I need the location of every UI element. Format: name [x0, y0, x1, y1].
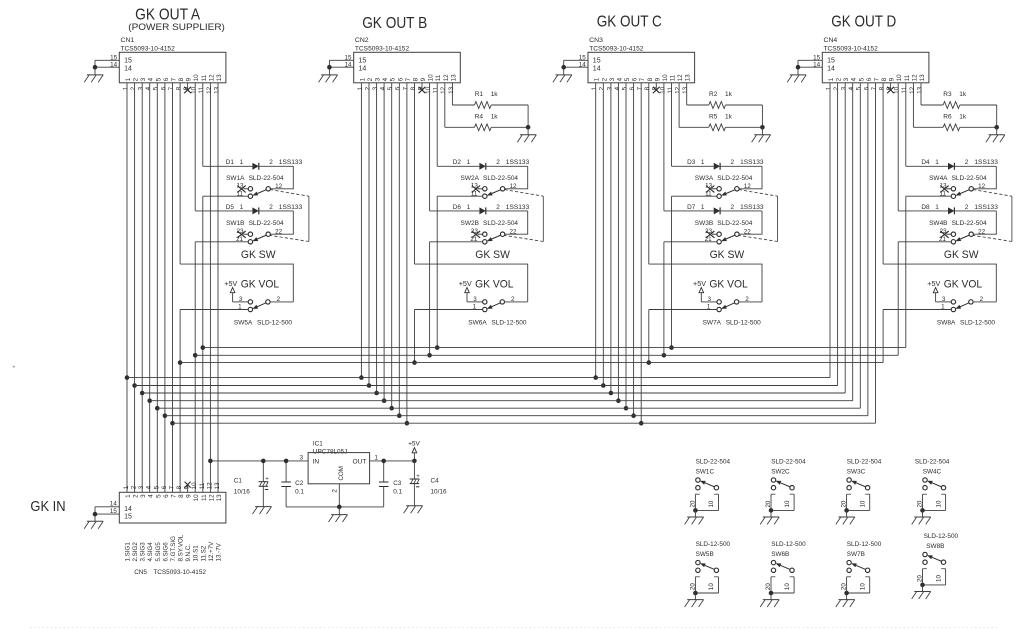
svg-text:SW1C: SW1C	[696, 469, 715, 476]
junction +5V/C4	[412, 459, 417, 464]
svg-text:8: 8	[413, 77, 420, 81]
wire CN3 pin 1	[595, 83, 597, 378]
svg-text:SLD-22-504: SLD-22-504	[483, 175, 518, 182]
junction pin 5 bus	[389, 406, 394, 411]
wire CN4 pin 13 to R3	[920, 83, 922, 105]
bus SIG1	[127, 377, 830, 379]
svg-text:1k: 1k	[959, 114, 967, 121]
wire CN2 ground	[328, 60, 330, 75]
junction CN4 pin14/15	[796, 65, 801, 70]
svg-text:3: 3	[609, 77, 616, 81]
svg-text:SW4C: SW4C	[923, 469, 942, 476]
junction R2/R5	[760, 125, 765, 130]
svg-text:2: 2	[731, 159, 735, 166]
svg-text:10: 10	[935, 500, 942, 507]
switch SW1B SLD-22-504	[226, 220, 284, 244]
wire CN2 pin 7	[406, 83, 408, 423]
svg-text:GK OUT C: GK OUT C	[597, 14, 662, 31]
svg-text:D8: D8	[921, 204, 930, 211]
connector CN2 TCS5093-10-4152	[354, 37, 461, 83]
svg-text:13: 13	[682, 86, 689, 94]
switch SW3B SLD-22-504	[695, 220, 753, 244]
svg-text:2: 2	[836, 77, 843, 81]
svg-text:9: 9	[654, 77, 661, 81]
svg-text:6: 6	[163, 494, 170, 498]
svg-text:14: 14	[813, 61, 821, 68]
wire SW6A wiper down	[414, 310, 416, 363]
wire CN4 pin 4	[852, 83, 854, 401]
svg-text:15: 15	[110, 508, 117, 515]
bus S1	[195, 354, 898, 356]
svg-text:SW7B: SW7B	[847, 551, 865, 558]
junction pin 1 bus	[593, 375, 598, 380]
svg-text:7: 7	[169, 485, 176, 489]
svg-text:2: 2	[599, 86, 606, 90]
svg-text:TCS5093-10-4152: TCS5093-10-4152	[121, 46, 176, 53]
svg-text:2: 2	[269, 204, 273, 211]
svg-text:13: 13	[214, 482, 221, 490]
switch SW4B SLD-22-504	[929, 220, 987, 244]
wire CN4 pin 1	[829, 83, 831, 378]
svg-text:D4: D4	[921, 159, 930, 166]
capacitor C2 0.1	[281, 461, 304, 507]
wire CN1 pin 12 (+7V)	[209, 83, 211, 493]
wire CN3 pin 12 to R5	[678, 83, 680, 128]
svg-text:1k: 1k	[725, 91, 733, 98]
title GK OUT A	[135, 7, 201, 24]
svg-text:14: 14	[344, 61, 352, 68]
svg-text:20: 20	[917, 575, 924, 582]
svg-text:1: 1	[701, 204, 705, 211]
svg-text:1: 1	[828, 77, 835, 81]
svg-text:15: 15	[344, 54, 352, 61]
svg-text:1: 1	[125, 77, 132, 81]
ground IC1 COM	[329, 515, 348, 522]
wire SW5A wiper down	[179, 310, 181, 493]
svg-text:20: 20	[690, 500, 697, 507]
svg-text:1: 1	[467, 204, 471, 211]
svg-text:12: 12	[208, 494, 215, 502]
svg-text:3: 3	[942, 296, 946, 303]
svg-text:11.S2: 11.S2	[200, 545, 207, 561]
svg-text:TCS5093-10-4152: TCS5093-10-4152	[355, 46, 410, 53]
ground CN5	[84, 521, 103, 528]
wire CN3 pin 4	[617, 83, 619, 401]
wire R2 to ground node	[761, 105, 763, 127]
svg-text:SW3C: SW3C	[847, 469, 866, 476]
svg-text:2: 2	[131, 485, 138, 489]
svg-text:15: 15	[359, 58, 367, 65]
svg-text:3: 3	[473, 296, 477, 303]
label GK VOL	[475, 278, 513, 290]
svg-text:(POWER SUPPLIER): (POWER SUPPLIER)	[128, 22, 225, 33]
wire SW7A pin 1 (SY.VOL)	[649, 309, 717, 311]
wire CN1 pin 13 (-7V)	[217, 83, 219, 493]
svg-text:SLD-12-500: SLD-12-500	[257, 319, 292, 326]
resistor R1 1k	[452, 91, 528, 108]
svg-text:C1: C1	[234, 478, 243, 485]
svg-text:CN2: CN2	[355, 37, 369, 44]
wire CN3 pin 10 to D7	[663, 83, 665, 211]
svg-text:SW2C: SW2C	[771, 469, 790, 476]
label GK IN	[30, 499, 65, 515]
regulator IC1 UPC78L05J	[299, 441, 378, 493]
svg-text:CN5: CN5	[134, 569, 147, 576]
svg-text:12: 12	[275, 183, 283, 190]
svg-text:1SS133: 1SS133	[974, 204, 998, 211]
svg-text:5: 5	[155, 77, 162, 81]
svg-text:SLD-22-504: SLD-22-504	[717, 175, 752, 182]
junction pin 5 bus	[624, 406, 629, 411]
svg-text:11: 11	[667, 86, 674, 93]
svg-text:3.SIG3: 3.SIG3	[140, 542, 147, 562]
connector CN5 TCS5093-10-4152	[119, 492, 226, 523]
svg-text:10: 10	[191, 86, 198, 94]
svg-text:12: 12	[675, 86, 682, 94]
svg-text:SW3B: SW3B	[695, 220, 713, 227]
svg-text:10: 10	[428, 74, 435, 82]
svg-text:15: 15	[813, 54, 821, 61]
bus SIG3	[142, 392, 845, 394]
wire IC1 OUT to +5V	[370, 460, 415, 462]
wire CN2 pin 11 to D2	[436, 83, 438, 167]
wire SW1A pin 11 (S2)	[203, 195, 249, 197]
svg-text:SW3A: SW3A	[695, 175, 714, 182]
svg-text:2.SIG2: 2.SIG2	[132, 542, 139, 562]
svg-text:+5V: +5V	[224, 279, 237, 288]
svg-text:10: 10	[784, 500, 791, 507]
ground R1/R4	[517, 135, 536, 142]
junction C1	[261, 459, 266, 464]
svg-text:R5: R5	[709, 114, 718, 121]
CN5 pin 9 no-connect	[185, 482, 191, 493]
wire D6 cathode to SW2B pin22	[505, 211, 528, 234]
svg-text:D7: D7	[687, 204, 696, 211]
svg-text:1: 1	[357, 86, 364, 90]
wire CN3 pin 7	[640, 83, 642, 423]
switch SW2C SLD-22-504 (spare)	[760, 459, 806, 525]
wire SW3A pin 11 (S2)	[672, 195, 718, 197]
wire CN1 pin 4	[149, 83, 151, 493]
svg-text:SW4A: SW4A	[929, 175, 948, 182]
svg-text:20: 20	[765, 583, 772, 590]
bus SIG2	[135, 385, 838, 387]
svg-text:11: 11	[904, 74, 911, 81]
svg-text:2: 2	[331, 489, 338, 493]
diode D1 1SS133	[203, 159, 303, 170]
svg-text:14: 14	[110, 501, 117, 508]
svg-text:SW1A: SW1A	[226, 175, 245, 182]
svg-text:CN1: CN1	[121, 37, 135, 44]
svg-text:5: 5	[856, 86, 863, 90]
svg-text:5: 5	[621, 86, 628, 90]
svg-text:5: 5	[153, 86, 160, 90]
wire SW2B pin 21 (S1)	[430, 241, 483, 243]
wire IC1 COM	[338, 484, 340, 507]
switch SW7B SLD-12-500 (spare)	[836, 541, 882, 607]
svg-text:1: 1	[935, 204, 939, 211]
svg-text:CN4: CN4	[824, 37, 838, 44]
svg-text:20: 20	[841, 583, 848, 590]
svg-text:11: 11	[901, 86, 908, 93]
svg-text:2: 2	[965, 204, 969, 211]
wire D4 cathode to SW4A pin12	[973, 166, 996, 189]
junction S2 bus	[201, 345, 206, 350]
power +5V output	[408, 440, 420, 461]
wire +7V rail	[210, 460, 308, 462]
svg-text:13: 13	[448, 86, 455, 94]
svg-text:D6: D6	[453, 204, 462, 211]
power +5V arrow	[693, 279, 706, 302]
svg-text:10: 10	[659, 86, 666, 94]
pot SW7A SLD-12-500	[701, 296, 761, 326]
label GK SW	[710, 249, 745, 261]
svg-text:SLD-22-504: SLD-22-504	[915, 459, 950, 466]
svg-text:COM: COM	[338, 466, 345, 480]
junction S1 bus	[427, 353, 432, 358]
wire SW4A common down	[905, 196, 907, 347]
svg-text:13: 13	[916, 86, 923, 94]
svg-text:GK VOL: GK VOL	[241, 278, 279, 290]
wire resistor ground stub	[527, 127, 529, 135]
bus SIG5	[157, 407, 860, 409]
svg-text:14: 14	[124, 65, 132, 72]
wire CN1 pin 3	[141, 83, 143, 493]
wire SW3B pin 21 (S1)	[664, 241, 717, 243]
junction pin 3 bus	[374, 391, 379, 396]
svg-text:22: 22	[510, 228, 518, 235]
CN3 pin 9 no-connect	[653, 83, 660, 93]
svg-text:8: 8	[879, 86, 886, 90]
svg-text:SW8A: SW8A	[937, 319, 956, 326]
wire CN1 pin 7	[172, 83, 174, 493]
wire SW6A pin 1 (SY.VOL)	[415, 309, 483, 311]
svg-text:4: 4	[148, 494, 155, 498]
wire SW4A pin 11 (S2)	[906, 195, 952, 197]
svg-text:6: 6	[163, 77, 170, 81]
svg-text:SLD-22-504: SLD-22-504	[771, 459, 806, 466]
wire SW8A pin 2	[973, 301, 997, 303]
capacitor C4 10/16	[410, 461, 447, 506]
wire CN1 ground	[94, 60, 96, 75]
ground C1	[253, 507, 272, 514]
svg-text:3: 3	[140, 77, 147, 81]
svg-text:1: 1	[701, 159, 705, 166]
svg-text:C2: C2	[295, 480, 304, 487]
svg-text:4.SIG4: 4.SIG4	[147, 542, 154, 562]
svg-text:15: 15	[579, 54, 587, 61]
CN4 pin 14 stub	[798, 61, 822, 68]
ground R3/R6	[986, 135, 1005, 142]
svg-text:SLD-12-500: SLD-12-500	[924, 533, 959, 540]
wire CN3 pin 13 to R2	[686, 83, 688, 105]
svg-text:12: 12	[978, 183, 986, 190]
switch SW8B SLD-12-500 (spare)	[912, 533, 959, 599]
svg-text:SLD-22-504: SLD-22-504	[696, 459, 731, 466]
wire CN3 pin 8 to GK SW	[648, 83, 650, 264]
CN2 pin 15 stub	[329, 54, 353, 61]
wire D3 cathode to SW3A pin12	[739, 166, 762, 189]
svg-text:11: 11	[435, 74, 442, 81]
bus SY.VOL	[180, 362, 883, 364]
svg-text:D3: D3	[687, 159, 696, 166]
svg-text:R3: R3	[943, 91, 952, 98]
diode D2 1SS133	[437, 159, 529, 170]
svg-text:11: 11	[201, 74, 208, 81]
junction R3/R6	[994, 125, 999, 130]
svg-text:3: 3	[606, 86, 613, 90]
svg-text:8: 8	[178, 494, 185, 498]
svg-text:3: 3	[843, 77, 850, 81]
linkage SW3A-SW3B	[739, 190, 778, 242]
switch SW4A SLD-22-504	[929, 175, 987, 199]
svg-text:1: 1	[240, 204, 244, 211]
svg-text:2: 2	[496, 204, 500, 211]
svg-text:13: 13	[919, 74, 926, 82]
svg-text:8: 8	[644, 86, 651, 90]
svg-text:20: 20	[841, 500, 848, 507]
svg-text:5: 5	[153, 485, 160, 489]
svg-text:+5V: +5V	[459, 279, 472, 288]
svg-text:5: 5	[155, 494, 162, 498]
svg-text:1k: 1k	[491, 114, 499, 121]
wire SW5A pin 2	[270, 301, 294, 303]
CN3 pin labels	[591, 86, 689, 94]
svg-text:14: 14	[110, 61, 118, 68]
svg-text:R2: R2	[709, 91, 718, 98]
wire SW3A common down	[671, 196, 673, 347]
svg-text:GK SW: GK SW	[475, 249, 510, 261]
wire GK SW output	[415, 264, 528, 302]
wire CN2 pin 10 to D6	[429, 83, 431, 211]
svg-text:1: 1	[240, 159, 244, 166]
wire CN1 pin 11 to D1	[202, 83, 204, 167]
diode D4 1SS133	[906, 159, 998, 170]
CN2 pin 9 no-connect	[419, 83, 426, 93]
svg-text:5: 5	[387, 86, 394, 90]
svg-text:UPC78L05J: UPC78L05J	[313, 448, 347, 455]
svg-text:1k: 1k	[491, 91, 499, 98]
wire CN3 pin 3	[610, 83, 612, 393]
wire CN3 pin 2	[602, 83, 604, 386]
pot SW6A SLD-12-500	[467, 296, 527, 326]
svg-text:TCS5093-10-4152: TCS5093-10-4152	[589, 46, 644, 53]
junction S2 bus	[435, 345, 440, 350]
svg-text:7: 7	[405, 77, 412, 81]
svg-text:SLD-22-504: SLD-22-504	[717, 220, 752, 227]
junction pin 4 bus	[616, 398, 621, 403]
svg-text:13.-7V: 13.-7V	[216, 542, 223, 561]
svg-text:3: 3	[841, 86, 848, 90]
svg-text:SW4B: SW4B	[929, 220, 947, 227]
svg-text:SLD-12-500: SLD-12-500	[696, 541, 731, 548]
wire SW7A pin 2	[739, 301, 763, 303]
junction C2	[284, 459, 289, 464]
svg-text:4: 4	[146, 485, 153, 489]
svg-text:7: 7	[871, 86, 878, 90]
svg-text:CN3: CN3	[589, 37, 603, 44]
wire CN4 pin 8 to GK SW	[882, 83, 884, 264]
svg-text:15: 15	[124, 58, 132, 65]
wire CN1 pin 6	[164, 83, 166, 493]
svg-text:9.N.C.: 9.N.C.	[185, 544, 192, 562]
svg-text:22: 22	[744, 228, 752, 235]
wire CN4 pin 11 to D4	[905, 83, 907, 167]
svg-text:GK VOL: GK VOL	[944, 278, 982, 290]
wire CN4 pin 3	[844, 83, 846, 393]
svg-text:IN: IN	[313, 459, 320, 466]
junction pin 1 bus	[359, 375, 364, 380]
svg-text:7.GT.SIG: 7.GT.SIG	[170, 536, 177, 562]
resistor R6 1k	[913, 114, 996, 131]
svg-text:9: 9	[186, 494, 193, 498]
svg-text:8: 8	[410, 86, 417, 90]
svg-text:3: 3	[140, 494, 147, 498]
wire D2 cathode to SW2A pin12	[505, 166, 528, 189]
wire SW1A common down	[202, 196, 204, 492]
svg-text:14: 14	[579, 61, 587, 68]
svg-text:7: 7	[637, 86, 644, 90]
svg-text:SW5A: SW5A	[234, 319, 253, 326]
title GK OUT D	[831, 14, 896, 31]
svg-text:8: 8	[881, 77, 888, 81]
wire R1 to ground node	[527, 105, 529, 127]
svg-text:5: 5	[858, 77, 865, 81]
wire SW2B common down	[429, 242, 431, 355]
wire CN3 pin 5	[625, 83, 627, 408]
bus SIG6	[165, 415, 868, 417]
svg-text:2: 2	[364, 86, 371, 90]
CN1 pin 9 no-connect	[184, 83, 191, 93]
svg-text:3: 3	[372, 86, 379, 90]
wire CN4 pin 10 to D8	[897, 83, 899, 211]
svg-text:+: +	[416, 474, 420, 480]
svg-text:12.+7V: 12.+7V	[208, 541, 215, 562]
svg-text:1SS133: 1SS133	[279, 204, 303, 211]
wire CN2 pin 1	[360, 83, 362, 378]
CN1 pin 14 stub	[95, 61, 119, 68]
svg-text:SLD-12-500: SLD-12-500	[960, 319, 995, 326]
svg-text:22: 22	[978, 228, 986, 235]
junction CN3 pin14/15	[561, 65, 566, 70]
label GK SW	[241, 249, 276, 261]
CN2 pin 14 stub	[329, 61, 353, 68]
junction pin 6 bus	[397, 413, 402, 418]
subtitle (POWER SUPPLIER)	[128, 22, 225, 33]
svg-text:5: 5	[390, 77, 397, 81]
svg-text:10: 10	[935, 575, 942, 582]
junction pin 2 bus	[601, 383, 606, 388]
svg-text:12: 12	[443, 74, 450, 82]
resistor R4 1k	[445, 114, 528, 131]
wire CN4 pin 2	[837, 83, 839, 386]
svg-text:10: 10	[894, 86, 901, 94]
svg-text:10: 10	[859, 583, 866, 590]
svg-text:9: 9	[420, 77, 427, 81]
CN5 pin labels above	[123, 482, 221, 490]
scan artifact line	[30, 627, 1000, 629]
svg-text:SLD-22-504: SLD-22-504	[483, 220, 518, 227]
junction pin 6 bus	[163, 413, 168, 418]
svg-text:SLD-12-500: SLD-12-500	[726, 319, 761, 326]
svg-text:SLD-12-500: SLD-12-500	[771, 541, 806, 548]
svg-text:4: 4	[382, 77, 389, 81]
wire CN2 pin 8 to GK SW	[414, 83, 416, 264]
svg-text:GK VOL: GK VOL	[709, 278, 747, 290]
wire SW2A pin 11 (S2)	[437, 195, 483, 197]
wire SW1B pin 21 (S1)	[195, 241, 248, 243]
junction SY.VOL bus	[647, 360, 652, 365]
